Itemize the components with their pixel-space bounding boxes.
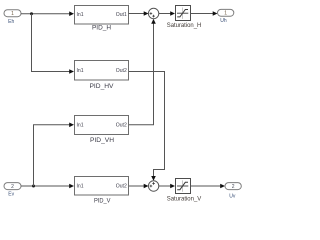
subsystem PID_V [75,177,129,205]
svg-text:PID_H: PID_H [92,25,111,32]
svg-text:Out2: Out2 [116,122,127,128]
outport 2 (Uv) [225,183,241,200]
inport 2 (Ev) [4,183,21,198]
wire Saturation_H to outport Uh [190,11,217,16]
wire PID_HV Out2 down to sum V [129,72,165,181]
node junction on Eh wire [30,12,33,15]
svg-text:In1: In1 [77,12,84,18]
svg-text:PID_HV: PID_HV [90,83,115,90]
svg-text:2: 2 [232,184,235,190]
svg-text:Ev: Ev [8,192,14,198]
wire sum V to Saturation_V [159,184,175,189]
svg-text:Out2: Out2 [116,184,127,190]
outport 1 (Uh) [218,9,234,24]
sum block H [148,8,158,18]
svg-text:Out1: Out1 [116,12,127,18]
wire junction up to PID_VH In1 [34,123,75,187]
sum block V [148,181,158,191]
svg-text:1: 1 [224,11,227,17]
svg-text:In1: In1 [77,68,84,74]
subsystem PID_HV [75,61,129,90]
wire PID_VH Out2 up to sum H [129,19,156,125]
subsystem PID_H [75,6,129,32]
wire inport Eh to PID_H In1 [21,11,74,16]
svg-text:1: 1 [11,11,14,17]
svg-text:In1: In1 [77,122,84,128]
saturation block Saturation_V [167,179,202,203]
svg-text:2: 2 [11,184,14,190]
node junction on Ev wire [32,185,35,188]
wire junction down to PID_HV In1 [32,14,75,74]
svg-text:Saturation_H: Saturation_H [167,22,202,29]
subsystem PID_VH [75,116,129,145]
wire sum H to Saturation_H [159,11,175,16]
wire Saturation_V to outport Uv [190,184,225,189]
wire inport Ev to PID_V In1 [21,184,74,189]
svg-text:Out2: Out2 [116,68,127,74]
wire PID_V Out2 to sum V [129,184,149,189]
inport 1 (Eh) [4,10,21,25]
saturation block Saturation_H [167,6,202,29]
wire PID_H Out1 to sum H [129,11,149,16]
svg-text:Uv: Uv [229,193,236,199]
svg-text:PID_VH: PID_VH [90,137,114,144]
svg-text:Uh: Uh [220,18,227,24]
svg-text:Saturation_V: Saturation_V [167,196,202,203]
svg-text:Eh: Eh [8,19,14,25]
svg-text:PID_V: PID_V [94,198,111,205]
svg-text:In1: In1 [77,184,84,190]
